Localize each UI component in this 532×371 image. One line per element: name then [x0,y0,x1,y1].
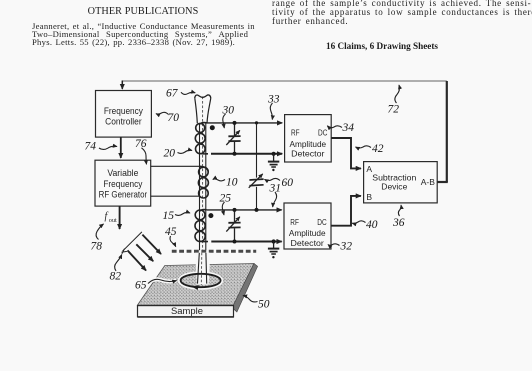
capacitor C30 stems [234,123,236,154]
svg-text:30: 30 [222,105,235,117]
box: RF amplitude detector upper U1 [285,115,332,162]
box: variable frequency RF generator [95,160,151,206]
wire: controller to generator [120,137,122,158]
label: detector U1 text [289,128,327,159]
svg-text:82: 82 [110,271,122,283]
junction dot C25 top [233,208,237,212]
label: detector U2 text [289,217,327,248]
coil 20 upper sense coil [195,123,208,154]
rod core dashed centerline [202,97,204,251]
svg-text:Amplitude: Amplitude [289,139,326,149]
svg-text:Frequency: Frequency [104,106,143,116]
capacitor C30 variable arrow [226,130,240,145]
rod core body left line [199,123,201,250]
box: subtraction device U3 [364,162,438,203]
junction dot C30 bottom [233,152,237,156]
coil 10 drive coil [198,166,208,198]
capacitor C60 variable arrow [249,174,263,188]
wire: detector U1 DC out to A [331,138,361,168]
junction dot C60 bottom [255,208,259,212]
leader 72 [395,85,400,103]
svg-text:74: 74 [85,141,97,153]
svg-text:A: A [366,164,372,174]
svg-text:Controller: Controller [105,116,142,126]
svg-text:DC: DC [317,217,326,227]
wire: generator output top to coil 10 [151,165,200,167]
wire: figure top feedback line [122,80,447,82]
svg-text:Amplitude: Amplitude [289,228,326,238]
leader 40 [352,221,365,224]
leader 31 [273,192,277,207]
wire: detector U2 DC out to B [331,196,361,226]
leader 65 [148,279,177,283]
svg-text:78: 78 [91,241,103,253]
svg-text:RF: RF [290,217,299,227]
svg-text:76: 76 [135,138,147,150]
radiation baseline [123,232,142,251]
sample stage right side face [233,264,257,313]
box: RF amplitude detector lower U2 [284,203,331,249]
ground G1 [273,154,275,161]
wire: generator output bottom to coil 10 [151,195,200,197]
leader 67 [181,92,195,94]
reference numerals [85,88,405,311]
leader 65 white casing [148,279,177,283]
header text [0,8,286,16]
svg-text:Detector: Detector [291,149,324,159]
barrier 45 dashed bar [172,250,256,253]
rod core body right line [205,123,207,250]
rod white casing through stipple [195,253,210,285]
eddy current direction arrowhead [192,285,199,290]
leader 50 [243,296,258,302]
leader 32 [328,244,340,246]
leader 70 [156,112,169,114]
svg-text:Detector: Detector [291,238,324,248]
leader 45 [170,236,176,247]
wire: drop into frequency controller [121,81,123,90]
svg-text:45: 45 [165,226,177,238]
label: subtraction device text [366,164,435,202]
svg-text:40: 40 [366,219,378,231]
rod lower dashed centerline [200,253,203,285]
rod core flare sides [195,98,198,123]
box texts [99,106,436,317]
svg-text:31: 31 [269,183,282,195]
wire: f out arrow [119,206,121,229]
phase dot coil 20 [210,125,215,130]
junction dot C25 bottom [233,240,237,244]
coil 15 lower sense coil [195,210,208,242]
rod lower left line [198,253,200,284]
svg-text:DC: DC [318,128,327,138]
leader 25 [222,202,224,215]
leader 34 [327,126,342,128]
svg-text:Sample: Sample [171,306,203,317]
svg-text:B: B [366,192,372,202]
eddy current ellipse 65 white outer ring [179,272,222,288]
capacitor C25 variable arrow [226,217,240,232]
junction dot ground G1 tap [272,152,276,156]
leader 10 [213,179,225,181]
svg-text:72: 72 [388,104,400,116]
sample stage top face [138,264,255,306]
rod core flare 67 top [195,95,211,98]
svg-text:RF: RF [291,128,300,138]
wire: link to cap 60 [256,123,258,178]
svg-text:25: 25 [220,193,232,205]
leader 36 [398,205,401,216]
wire: lower circuit bottom [211,241,281,243]
leader 82 [115,255,122,272]
wire: A-B output to feedback [437,181,448,183]
svg-text:67: 67 [166,88,179,100]
leader 15 [175,212,190,215]
svg-text:RF Generator: RF Generator [99,189,148,199]
sample front bar bottom heavy edge [138,316,234,318]
svg-text:60: 60 [282,177,294,189]
svg-text:out: out [109,217,117,224]
junction dot C60 top [255,121,258,124]
capacitor C25 plates [228,223,240,228]
wire: lower circuit top [207,209,282,211]
svg-text:65: 65 [135,280,147,292]
leader 42 [356,146,372,148]
svg-text:42: 42 [372,143,384,155]
svg-text:A-B: A-B [421,177,436,187]
svg-text:Frequency: Frequency [103,179,142,189]
ground G2 [273,242,275,249]
svg-text:10: 10 [226,177,238,189]
wire: right vertical feedback [446,81,448,182]
svg-text:70: 70 [168,112,180,124]
phase dot coil 15 [208,213,213,218]
rod lower right line [205,253,208,284]
leader 20 [178,150,193,153]
capacitor C30 plates [228,136,240,141]
wire: upper circuit top [207,122,283,124]
leader 78 [96,224,103,240]
radiation tail tick [122,249,127,254]
svg-text:Device: Device [381,182,407,192]
leader 33 [270,103,272,120]
eddy current ellipse 65 [181,274,221,287]
radiation arrow 1 [142,235,161,254]
junction dot ground G2 tap [272,239,276,243]
leader 60 [265,178,281,180]
svg-text:36: 36 [392,217,405,229]
svg-text:32: 32 [340,241,353,253]
capacitor C60 plates [249,179,263,186]
radiation arrow 2 [136,244,153,261]
capacitor C25 stems [234,210,236,242]
box: frequency controller U-ctrl [96,91,152,138]
svg-text:34: 34 [342,122,355,134]
leader 30 [223,114,226,128]
svg-text:33: 33 [267,94,280,106]
wire: upper circuit bottom [211,153,282,155]
sample front bar [138,306,234,317]
svg-text:15: 15 [163,210,175,222]
leader 76 [142,148,147,165]
radiation arrow 3 [128,250,147,270]
svg-text:20: 20 [164,148,176,160]
svg-text:50: 50 [258,299,270,311]
leader 74 [99,146,117,149]
svg-text:Variable: Variable [107,168,138,178]
junction dot C30 top [233,121,237,125]
